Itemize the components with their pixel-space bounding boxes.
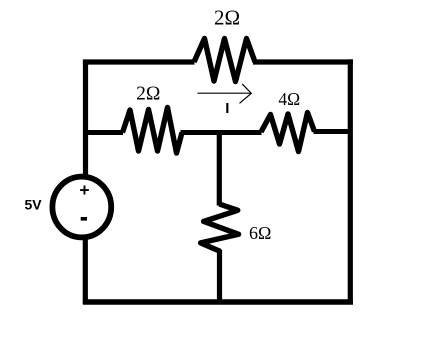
- wire: right vertical: [348, 59, 353, 304]
- wire: middle branch left lead: [83, 130, 123, 135]
- resistor 2ohm middle: [123, 108, 183, 154]
- resistor 2ohm top (on top wire): [194, 39, 255, 82]
- svg-text:4Ω: 4Ω: [278, 89, 300, 109]
- value label 2ohm top: [214, 6, 240, 30]
- voltage source minus terminal: [81, 217, 87, 221]
- value label 2ohm middle: [136, 83, 160, 104]
- wire: middle branch center segment (R2 to R4 through node): [181, 130, 262, 135]
- voltage source plus terminal: [79, 180, 89, 200]
- wire: left vertical bottom segment (source to bottom wire): [83, 238, 88, 304]
- current arrow I (shaft): [198, 92, 252, 94]
- value label 4ohm: [278, 89, 300, 109]
- voltage source V1 circle: [52, 177, 111, 238]
- resistor 6ohm (vertical): [201, 204, 239, 252]
- value label 6ohm: [249, 223, 271, 243]
- svg-text:5V: 5V: [25, 196, 43, 212]
- svg-text:2Ω: 2Ω: [214, 6, 240, 30]
- current label I: [225, 100, 229, 117]
- wire: 6ohm branch upper vertical: [217, 131, 222, 206]
- svg-text:I: I: [225, 100, 229, 117]
- wire: 6ohm branch lower vertical: [217, 250, 222, 304]
- wire: left vertical top segment (top-left corner down to source): [83, 61, 88, 178]
- wire: top horizontal right lead: [253, 59, 353, 64]
- wire: middle branch right lead: [314, 129, 351, 134]
- svg-text:6Ω: 6Ω: [249, 223, 271, 243]
- wire: bottom horizontal: [83, 299, 353, 304]
- current arrow I (head): [240, 84, 252, 103]
- source value label 5V: [25, 196, 43, 212]
- wire: top horizontal left lead: [83, 59, 195, 64]
- svg-text:+: +: [79, 180, 89, 200]
- resistor 4ohm: [261, 113, 315, 152]
- svg-text:2Ω: 2Ω: [136, 83, 160, 104]
